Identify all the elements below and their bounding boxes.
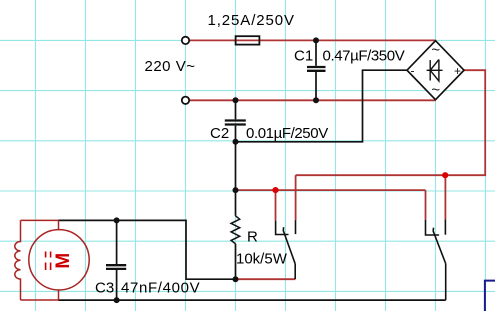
wire node A to switch SW2 left contact: [425, 190, 427, 220]
svg-text:R: R: [247, 229, 258, 246]
junction C2 top: [233, 97, 239, 103]
junction C2 bottom / bridge minus: [233, 139, 239, 145]
svg-text:M: M: [53, 253, 74, 269]
svg-text:C1: C1: [294, 48, 313, 65]
wire R bottom to switch SW1 blade: [236, 278, 296, 280]
wire motor top rail to R bottom junction: [59, 220, 236, 279]
wire second AC line N: [190, 99, 436, 101]
wire C2 bottom lead down to R top: [235, 126, 237, 216]
wire bottom rail motor to SW2: [59, 299, 446, 301]
wire node A horizontal: [236, 189, 426, 191]
switch SW2: [426, 219, 446, 300]
junction C1 bottom: [313, 97, 319, 103]
junction R bottom: [233, 276, 239, 282]
junction node B red dot: [442, 172, 448, 178]
svg-text:47nF/400V: 47nF/400V: [121, 280, 200, 297]
bridge rectifier B1: [407, 41, 464, 100]
svg-text:C2: C2: [210, 125, 229, 142]
wire top AC line L: [190, 39, 436, 41]
svg-text:10k/5W: 10k/5W: [236, 250, 288, 267]
wire node B pin to switch SW2 right contact: [444, 175, 446, 219]
wire C2 top lead: [235, 100, 237, 119]
motor DC marks: [46, 252, 51, 271]
capacitor C2: [225, 121, 246, 125]
terminal top: [182, 37, 189, 44]
svg-text:-: -: [411, 64, 415, 78]
fuse F1 1,25A/250V: [236, 36, 260, 44]
svg-text:~: ~: [431, 81, 440, 98]
switch SW1: [276, 220, 296, 279]
wire bridge plus to right rail: [296, 70, 486, 175]
svg-text:+: +: [454, 64, 461, 78]
svg-text:C3: C3: [95, 280, 114, 297]
junction node A at R top: [233, 187, 239, 193]
junction C3 bottom: [114, 297, 120, 303]
wire C3 top lead: [116, 220, 118, 264]
motor M1: [15, 220, 89, 300]
svg-text:220 V~: 220 V~: [145, 58, 196, 75]
junction C1 top: [313, 37, 319, 43]
svg-text:1,25A/250V: 1,25A/250V: [208, 12, 295, 29]
junction node A red dot: [272, 187, 278, 193]
svg-text:0.01µF/250V: 0.01µF/250V: [246, 125, 328, 142]
navy wire bottom right: [485, 281, 495, 311]
wire R bottom lead: [235, 244, 237, 279]
resistor R zigzag: [231, 216, 240, 244]
wire bridge minus to C2 bottom node: [236, 70, 408, 142]
svg-text:~: ~: [431, 41, 440, 58]
svg-text:0.47µF/350V: 0.47µF/350V: [323, 48, 405, 65]
capacitor C3: [106, 265, 126, 269]
wire node B pin to switch SW1 right contact: [295, 175, 297, 220]
wire C3 bottom lead: [116, 270, 118, 300]
terminal bottom: [182, 97, 189, 104]
wire node A to switch SW1 left contact: [275, 190, 277, 221]
motor M label: [53, 253, 74, 269]
wire C1 bottom lead: [315, 72, 317, 101]
wire C1 top lead: [315, 40, 317, 65]
junction C3 top: [114, 217, 120, 223]
capacitor C1: [307, 67, 326, 71]
